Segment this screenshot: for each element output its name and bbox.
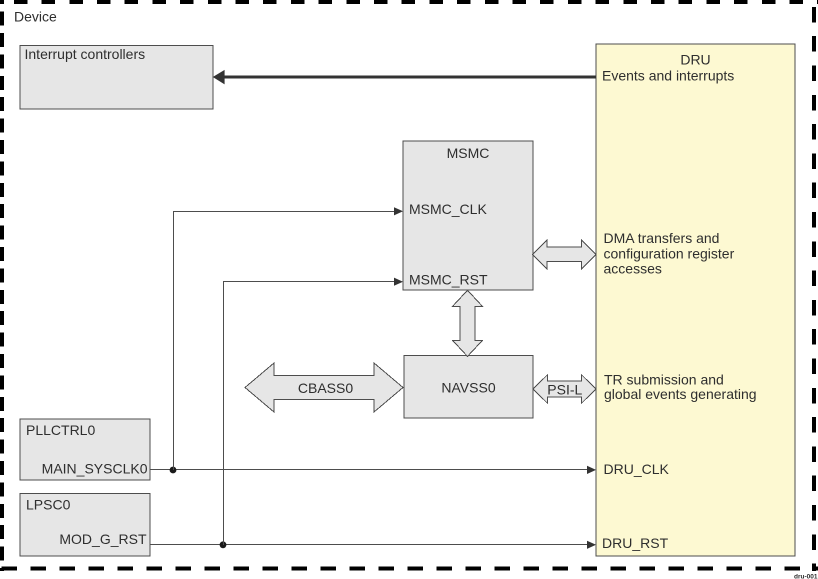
block PLLCTRL0	[20, 419, 150, 480]
svg-text:Interrupt controllers: Interrupt controllers	[25, 46, 146, 62]
svg-text:PSI-L: PSI-L	[547, 382, 582, 398]
svg-text:DMA transfers and: DMA transfers and	[604, 230, 720, 246]
block DRU	[596, 44, 795, 556]
wire MAIN_SYSCLK0 to DRU_CLK	[150, 466, 596, 474]
wire DRU events to interrupt controllers (thick)	[213, 70, 596, 85]
svg-text:DRU_CLK: DRU_CLK	[604, 461, 670, 477]
block NAVSS0	[404, 356, 533, 419]
svg-text:DRU: DRU	[680, 52, 710, 68]
svg-text:LPSC0: LPSC0	[26, 496, 71, 512]
svg-text:CBASS0: CBASS0	[298, 380, 353, 396]
wire riser MOD_G_RST to MSMC_RST	[224, 278, 404, 545]
svg-text:MSMC_RST: MSMC_RST	[409, 271, 488, 287]
wire MOD_G_RST to DRU_RST	[150, 541, 596, 549]
svg-text:accesses: accesses	[604, 261, 662, 277]
block LPSC0	[20, 494, 150, 557]
bus arrow PSI-L NAVSS0-DRU	[533, 375, 596, 404]
bus arrow CBASS0	[245, 363, 403, 412]
block Interrupt controllers	[20, 45, 213, 108]
svg-text:configuration register: configuration register	[604, 245, 735, 261]
junction dot on MOD_G_RST	[220, 541, 227, 548]
bus arrow MSMC-DRU (DMA transfers)	[533, 240, 597, 269]
svg-text:MOD_G_RST: MOD_G_RST	[59, 531, 147, 547]
block MSMC	[403, 141, 533, 290]
svg-text:MAIN_SYSCLK0: MAIN_SYSCLK0	[42, 460, 148, 476]
svg-text:MSMC_CLK: MSMC_CLK	[409, 201, 487, 217]
svg-text:DRU_RST: DRU_RST	[602, 535, 669, 551]
junction dot on MAIN_SYSCLK0	[170, 467, 177, 474]
svg-text:global events generating: global events generating	[604, 386, 757, 402]
svg-text:MSMC: MSMC	[447, 145, 490, 161]
svg-text:NAVSS0: NAVSS0	[441, 380, 495, 396]
svg-text:PLLCTRL0: PLLCTRL0	[26, 422, 95, 438]
wire riser MAIN_SYSCLK0 to MSMC_CLK	[174, 207, 404, 470]
svg-text:Device: Device	[14, 8, 57, 24]
svg-text:dru-001: dru-001	[794, 574, 818, 579]
svg-text:Events and interrupts: Events and interrupts	[602, 68, 734, 84]
bus arrow MSMC-NAVSS0 (vertical)	[453, 290, 483, 356]
